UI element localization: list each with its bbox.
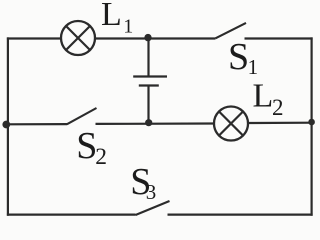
label L2 [253, 77, 284, 120]
label S2 [76, 125, 107, 170]
wire top-left segment [7, 37, 61, 39]
wire battery top lead [147, 39, 149, 77]
battery cell short plate [139, 84, 159, 86]
label L1 [101, 0, 133, 38]
svg-text:S: S [228, 36, 249, 78]
label S1 [228, 36, 258, 79]
wire left vertical [7, 37, 9, 215]
svg-text:2: 2 [95, 144, 107, 170]
wire battery bottom lead [147, 86, 149, 124]
switch S3 blade [136, 201, 170, 215]
lamp L1 [61, 21, 95, 55]
junction dot battery bottom node [145, 119, 152, 126]
battery cell long plate [133, 75, 167, 77]
svg-text:L: L [101, 0, 122, 33]
junction dot right middle node [308, 119, 315, 126]
wire top-middle segment [95, 37, 216, 39]
junction dot battery top node [144, 34, 151, 41]
switch S2 blade [67, 108, 97, 124]
svg-text:3: 3 [146, 180, 157, 204]
junction dot left middle node [2, 121, 10, 129]
wire top-right segment [245, 37, 313, 39]
svg-text:1: 1 [123, 16, 133, 38]
wire right vertical [311, 37, 313, 215]
svg-text:2: 2 [272, 95, 284, 120]
wire middle-left segment [7, 123, 67, 125]
wire bottom-left segment [7, 214, 136, 216]
lamp L2 [214, 107, 248, 141]
wire middle-right segment [248, 122, 313, 125]
label S3 [130, 161, 156, 204]
switch S1 blade [216, 23, 247, 38]
wire middle-center segment [96, 122, 215, 125]
wire bottom-right segment [168, 214, 313, 216]
svg-text:L: L [253, 77, 274, 114]
svg-text:1: 1 [248, 55, 259, 79]
